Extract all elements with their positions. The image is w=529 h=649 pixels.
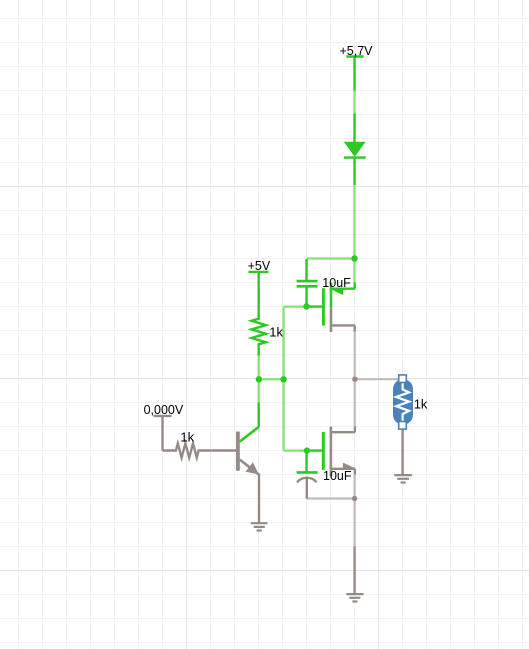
svg-text:+5,7V: +5,7V <box>340 44 374 58</box>
svg-text:10uF: 10uF <box>322 276 351 290</box>
svg-text:+5V: +5V <box>248 259 271 273</box>
svg-text:1k: 1k <box>414 396 428 411</box>
svg-text:10uF: 10uF <box>323 469 352 483</box>
svg-text:1k: 1k <box>269 325 283 340</box>
svg-text:0,000V: 0,000V <box>144 403 184 417</box>
svg-text:1k: 1k <box>180 429 194 444</box>
